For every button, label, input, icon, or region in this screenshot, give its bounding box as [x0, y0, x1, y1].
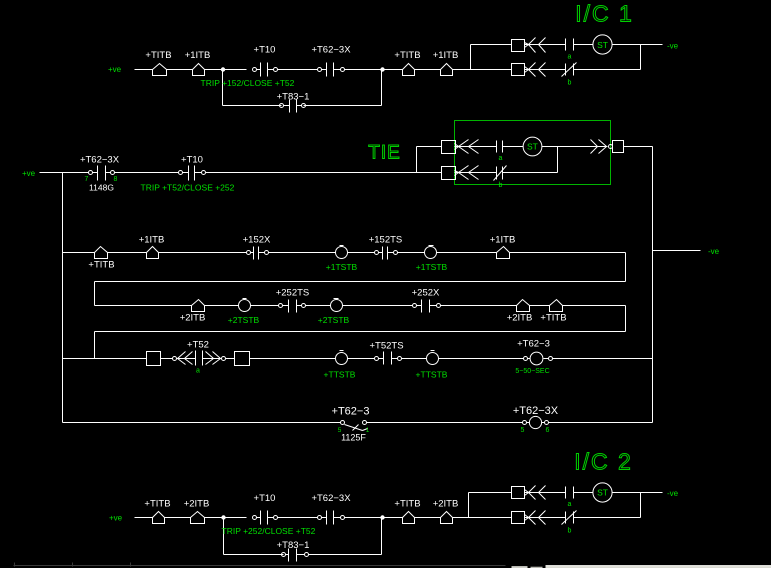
wire: [525, 492, 566, 494]
svg-text:+2TSTB: +2TSTB: [318, 315, 350, 325]
wire: [455, 172, 497, 174]
svg-text:+252X: +252X: [412, 288, 440, 299]
wire: [574, 492, 593, 494]
contact a (NO): [565, 39, 567, 51]
green enclosure tie breaker: [455, 121, 611, 185]
coil +TTSTB b: [427, 353, 439, 365]
wire: [574, 69, 641, 71]
svg-text:+T83−1: +T83−1: [277, 540, 310, 551]
wire tie join vertical: [557, 147, 559, 173]
wire: [226, 358, 235, 360]
wire: [165, 517, 191, 519]
breaker cell switch S2 (box): [512, 64, 525, 76]
lamp U1 ST: [593, 35, 612, 54]
wire T83 branch left vertical: [222, 70, 224, 106]
svg-text:+1ITB: +1ITB: [490, 235, 516, 246]
timer coil +T62-3: [524, 357, 528, 361]
svg-text:+T10: +T10: [254, 493, 276, 504]
svg-text:b: b: [499, 182, 503, 189]
junction node B: [380, 67, 384, 71]
wire: [525, 69, 566, 71]
wire: [306, 305, 331, 307]
svg-text:+252TS: +252TS: [276, 288, 310, 299]
wire rung3 to right bus: [553, 358, 653, 360]
svg-text:5: 5: [521, 427, 525, 434]
wire tie split vertical: [416, 147, 418, 173]
terminal TB3 +TITB: [403, 64, 415, 76]
svg-text:+1TSTB: +1TSTB: [416, 262, 448, 272]
svg-text:-ve: -ve: [708, 247, 720, 256]
terminal TB5 +TITB: [153, 512, 165, 524]
wire branch split vertical ic2: [468, 493, 470, 518]
wire: [574, 44, 593, 46]
svg-text:+T10: +T10: [181, 155, 203, 166]
wire: [159, 252, 247, 254]
wire T83 branch left vertical ic2: [223, 518, 225, 555]
wire tie upper branch: [417, 146, 442, 148]
wire: [402, 358, 427, 360]
svg-text:+TITB: +TITB: [145, 50, 171, 61]
wire +ve lead: [40, 172, 89, 174]
wire: [206, 172, 417, 174]
terminal circle tie out: [609, 145, 613, 149]
wire: [115, 172, 179, 174]
svg-text:+T62−3X: +T62−3X: [513, 405, 559, 417]
wire: [161, 358, 173, 360]
wire return2 horizontal: [95, 331, 626, 333]
terminal TB8 +2ITB: [441, 512, 453, 524]
svg-text:+2TSTB: +2TSTB: [228, 315, 260, 325]
wire to -ve ic2: [613, 492, 663, 494]
wire to branch split ic2: [453, 517, 469, 519]
wire: [525, 517, 566, 519]
wire +ve lead: [135, 69, 153, 71]
drawout chevrons S6: [529, 486, 536, 500]
svg-text:-ve: -ve: [667, 42, 679, 51]
wire: [205, 69, 247, 71]
svg-text:+T62−3: +T62−3: [332, 406, 370, 418]
wire rung4 left: [63, 422, 341, 424]
svg-text:+T62−3X: +T62−3X: [311, 45, 351, 56]
wire: [415, 517, 441, 519]
contact +152X (NO): [251, 252, 254, 254]
svg-text:+152TS: +152TS: [369, 235, 403, 246]
drawout chevrons S4: [459, 166, 469, 180]
breaker cell switch S4 (box): [442, 167, 456, 180]
svg-text:+TITB: +TITB: [394, 499, 420, 510]
contact +T62-3X (NO): [322, 69, 327, 71]
terminal TB7 +TITB: [403, 512, 415, 524]
coil +TTSTB a: [336, 353, 348, 365]
wire tie lower branch: [417, 172, 442, 174]
svg-text:+T10: +T10: [254, 45, 276, 56]
wire rung1 to return: [510, 252, 626, 254]
wire: [398, 252, 425, 254]
wire: [367, 422, 523, 424]
wire: [348, 252, 375, 254]
aux contact +T62-3X rung4: [523, 421, 527, 425]
svg-text:a: a: [568, 54, 572, 61]
terminal TB4 +1ITB: [441, 64, 453, 76]
wire: [415, 69, 441, 71]
svg-text:+TITB: +TITB: [540, 313, 566, 324]
wire: [437, 252, 497, 254]
svg-text:1: 1: [366, 427, 370, 434]
terminal +2ITB rung2 right: [517, 300, 530, 312]
frame bottom-right scrollbar strip: [546, 566, 771, 568]
contact +T83-1 ic2 (NO): [286, 554, 289, 556]
contact +152TS (NO): [379, 252, 383, 254]
svg-text:ST: ST: [527, 142, 538, 152]
wire to -ve: [613, 44, 663, 46]
wire: [503, 172, 558, 174]
svg-text:1125F: 1125F: [341, 433, 366, 443]
terminal +TITB rung2 right: [550, 300, 563, 312]
svg-text:a: a: [499, 155, 503, 162]
svg-text:7: 7: [85, 176, 89, 183]
svg-text:+T62−3: +T62−3: [517, 339, 550, 350]
wire: [542, 146, 558, 148]
breaker cell switch S3 (box): [442, 141, 456, 154]
contact +T83-1 (NO): [284, 105, 290, 107]
wire upper branch: [471, 44, 512, 46]
terminal TB1 +TITB: [153, 64, 167, 76]
svg-text:b: b: [568, 528, 572, 535]
wire: [205, 305, 239, 307]
svg-text:+T52TS: +T52TS: [369, 341, 403, 352]
svg-text:+TTSTB: +TTSTB: [324, 370, 356, 380]
svg-text:6: 6: [546, 427, 550, 434]
contact b (NC): [565, 64, 567, 76]
svg-text:+TTSTB: +TTSTB: [416, 370, 448, 380]
wire: [525, 44, 566, 46]
wire: [439, 358, 524, 360]
wire +ve lead: [135, 517, 153, 519]
frame bottom small buttons: [512, 566, 528, 568]
breaker cell box rung3 left: [147, 352, 161, 366]
drawout chevrons S2: [529, 63, 536, 77]
wire T83 branch ic2: [309, 554, 382, 556]
svg-text:+TITB: +TITB: [144, 499, 170, 510]
lamp U3 ST ic2: [593, 483, 612, 502]
contact +T62-3X ic2 (NO): [322, 517, 327, 519]
contact +T10 tie (NO): [183, 172, 189, 174]
svg-text:I/C 2: I/C 2: [574, 449, 633, 475]
wire T83 branch: [223, 105, 282, 107]
wire: [530, 305, 550, 307]
junction node A: [221, 67, 225, 71]
wire rung4 right: [549, 422, 653, 424]
wire T83 branch ic2: [224, 554, 284, 556]
wire return1 horizontal: [95, 281, 626, 283]
wire return2 to rung3: [94, 332, 96, 359]
terminal TB2 +1ITB: [193, 64, 205, 76]
wire lower branch ic2: [469, 517, 512, 519]
terminal TB6 +2ITB: [191, 512, 205, 524]
frame bottom edge left (command line border): [14, 565, 506, 567]
wire tie output: [558, 146, 608, 148]
breaker +T52 drawout contact: [173, 357, 177, 361]
wire: [574, 517, 641, 519]
contact b ic2 (NC): [565, 512, 567, 524]
terminal +2ITB rung2: [192, 300, 205, 312]
wire: [205, 517, 247, 519]
drawout chevrons S3: [459, 140, 469, 154]
svg-text:+1ITB: +1ITB: [433, 50, 459, 61]
contact +252TS (NO): [283, 305, 289, 307]
wire: [251, 305, 279, 307]
wire return2 down: [625, 306, 627, 332]
drawout chevrons S7: [529, 511, 536, 525]
wire return1 down: [625, 253, 627, 282]
svg-text:1148G: 1148G: [89, 183, 114, 193]
wire to branch split: [453, 69, 471, 71]
wire branch join vertical: [640, 45, 642, 70]
svg-text:+2ITB: +2ITB: [433, 499, 459, 510]
contact +T10 (NO): [257, 69, 261, 71]
svg-text:TRIP +T52/CLOSE +252: TRIP +T52/CLOSE +252: [141, 182, 235, 192]
coil +2TSTB b: [331, 300, 343, 312]
terminal +1ITB rung1 right: [497, 247, 510, 259]
wire return1 to rung2: [94, 282, 96, 306]
wire: [108, 252, 147, 254]
svg-text:+T83−1: +T83−1: [277, 92, 310, 103]
svg-text:8: 8: [114, 176, 118, 183]
svg-text:a: a: [568, 501, 572, 508]
wire left bus: [62, 173, 64, 423]
wire right bus: [652, 147, 654, 423]
wire T83 branch right vertical: [381, 70, 383, 106]
svg-text:+1TSTB: +1TSTB: [326, 262, 358, 272]
breaker cell switch S5 (box): [613, 141, 624, 153]
wire branch join vertical ic2: [640, 493, 642, 518]
svg-text:b: b: [568, 80, 572, 87]
svg-text:a: a: [196, 368, 200, 375]
breaker cell switch S1 (box): [512, 40, 525, 52]
wire -ve tap: [653, 250, 701, 252]
coil +1TSTB b: [425, 247, 437, 259]
contact a ic2 (NO): [565, 487, 567, 499]
coil +1TSTB a: [336, 247, 348, 259]
junction node C: [221, 515, 225, 519]
knife switch +T62-3: [341, 421, 345, 425]
svg-text:TRIP +252/CLOSE +T52: TRIP +252/CLOSE +T52: [222, 526, 316, 536]
svg-text:+TITB: +TITB: [394, 50, 420, 61]
wire: [269, 252, 336, 254]
wire: [348, 358, 375, 360]
svg-text:+T52: +T52: [187, 340, 209, 351]
wire: [167, 69, 193, 71]
contact +T62-3X (NO) tie: [93, 172, 98, 174]
wire: [345, 517, 403, 519]
wire T83 branch: [304, 105, 382, 107]
lamp U2 ST tie: [523, 137, 542, 156]
wire branch split vertical: [470, 45, 472, 70]
wire: [278, 517, 318, 519]
svg-text:+TITB: +TITB: [88, 260, 114, 271]
wire T83 branch right vertical ic2: [381, 518, 383, 555]
drawout chevrons S1: [529, 38, 536, 53]
wire: [345, 69, 403, 71]
wire: [278, 69, 318, 71]
svg-text:+2ITB: +2ITB: [507, 313, 533, 324]
svg-text:+1ITB: +1ITB: [185, 50, 211, 61]
svg-text:ST: ST: [597, 40, 608, 50]
svg-text:TIE: TIE: [368, 143, 401, 164]
svg-text:+ve: +ve: [108, 65, 122, 74]
coil +2TSTB a: [239, 300, 251, 312]
wire: [343, 305, 413, 307]
wire lower branch: [471, 69, 512, 71]
wire rung3 from bus: [63, 358, 147, 360]
svg-text:ST: ST: [597, 488, 608, 498]
svg-text:+1ITB: +1ITB: [139, 235, 165, 246]
svg-text:+ve: +ve: [109, 514, 123, 523]
breaker cell box rung3 right: [235, 352, 250, 366]
terminal +1ITB rung1: [147, 247, 159, 259]
contact +252X (NO): [417, 305, 422, 307]
contact b tie (NC): [496, 167, 498, 180]
svg-text:+T62−3X: +T62−3X: [311, 493, 351, 504]
junction node D: [380, 515, 384, 519]
svg-text:+152X: +152X: [243, 235, 271, 246]
wire rung2 to return: [563, 305, 626, 307]
contact a tie (NO): [496, 141, 498, 153]
svg-text:+ve: +ve: [22, 169, 36, 178]
svg-text:-ve: -ve: [667, 489, 679, 498]
wire upper branch ic2: [469, 492, 512, 494]
wire: [455, 146, 497, 148]
wire tie to right bus: [624, 146, 653, 148]
wire: [250, 358, 336, 360]
racking chevrons out: [591, 140, 598, 154]
wire rung1 from bus: [63, 252, 95, 254]
wire: [441, 305, 517, 307]
svg-text:I/C 1: I/C 1: [575, 1, 634, 27]
svg-text:+2ITB: +2ITB: [184, 499, 210, 510]
wire rung2 start: [95, 305, 192, 307]
contact +T52TS (NO): [379, 358, 384, 360]
breaker cell switch S6 (box): [512, 487, 525, 499]
wire: [503, 146, 524, 148]
svg-text:+T62−3X: +T62−3X: [80, 155, 120, 166]
breaker cell switch S7 (box): [512, 512, 525, 524]
svg-text:+2ITB: +2ITB: [180, 313, 206, 324]
contact +T10 ic2 (NO): [257, 517, 261, 519]
terminal +TITB rung1: [95, 247, 108, 259]
svg-text:5−50−SEC: 5−50−SEC: [515, 368, 549, 375]
svg-text:TRIP +152/CLOSE +T52: TRIP +152/CLOSE +T52: [201, 78, 295, 88]
